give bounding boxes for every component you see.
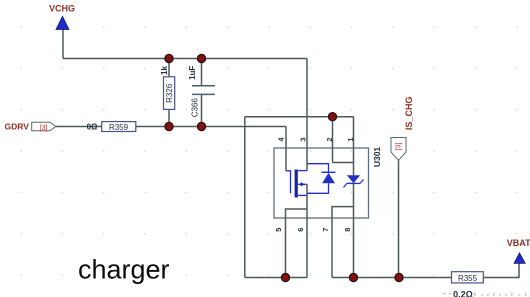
diode D-body cathode bar bbox=[322, 171, 336, 173]
svg-text:1uF: 1uF bbox=[188, 66, 197, 80]
zener triangle bbox=[347, 175, 360, 183]
svg-text:8: 8 bbox=[343, 228, 352, 232]
node line drain to diode bbox=[307, 164, 329, 173]
transistor drain stub bbox=[298, 170, 307, 172]
power symbol VCHG bbox=[56, 16, 69, 29]
svg-text:5: 5 bbox=[274, 228, 283, 232]
wire pin 7 lead bbox=[331, 218, 333, 278]
svg-text:IS_CHG: IS_CHG bbox=[404, 97, 414, 131]
svg-text:2: 2 bbox=[325, 137, 334, 141]
node pin2 tap bbox=[328, 113, 336, 121]
wire bottom rail right segment bbox=[332, 277, 452, 279]
U301 body box bbox=[274, 148, 369, 218]
svg-text:3: 3 bbox=[299, 137, 308, 141]
svg-text:C366: C366 bbox=[190, 98, 199, 118]
wire pin 4 drop bbox=[285, 127, 287, 171]
svg-text:0.2Ω: 0.2Ω bbox=[453, 290, 473, 297]
zener bends bbox=[344, 179, 364, 187]
wire C366 top stub bbox=[201, 59, 203, 86]
svg-text:R359: R359 bbox=[109, 123, 129, 132]
wire zener top lead bbox=[333, 163, 354, 176]
node pins 7-8 bbox=[349, 273, 357, 281]
faint artifact marks bbox=[443, 293, 527, 297]
svg-text:charger: charger bbox=[78, 254, 170, 284]
wire left drop to bottom rail bbox=[244, 117, 246, 278]
wire pin 8 lead bbox=[353, 218, 355, 278]
transistor body stub bbox=[298, 183, 307, 185]
svg-text:VBAT: VBAT bbox=[507, 238, 530, 248]
wire pin 3 drop bbox=[306, 59, 308, 171]
transistor source stub bbox=[298, 194, 307, 196]
node pins 5-6 bbox=[281, 273, 289, 281]
wire R355 to VBAT corner bbox=[483, 263, 519, 278]
wire top rail VCHG bbox=[63, 58, 307, 60]
wire R326 bottom stub bbox=[168, 109, 170, 126]
svg-text:R326: R326 bbox=[165, 83, 174, 103]
svg-text:[3]: [3] bbox=[396, 143, 403, 151]
wire VCHG stem bbox=[62, 30, 64, 59]
wire zener bottom lead bbox=[353, 183, 355, 218]
svg-text:1k: 1k bbox=[160, 66, 169, 75]
wire R326 top stub bbox=[168, 59, 170, 77]
node C366 top bbox=[197, 54, 205, 62]
node C366 bottom bbox=[197, 122, 205, 130]
node IS_CHG tap bbox=[395, 273, 403, 281]
diode D-body triangle bbox=[322, 173, 335, 183]
resistor R326 bbox=[164, 77, 175, 110]
zener cathode bar bbox=[347, 182, 360, 184]
svg-text:VCHG: VCHG bbox=[49, 4, 75, 14]
transistor Q (inside U301): gate jog and plate bbox=[286, 171, 291, 194]
wire pins 5-6 tie inside box bbox=[286, 209, 308, 218]
svg-text:6: 6 bbox=[296, 228, 305, 232]
wire pin 2 drop bbox=[332, 117, 334, 163]
svg-text:7: 7 bbox=[321, 228, 330, 232]
node R326 bottom bbox=[165, 122, 173, 130]
svg-text:1: 1 bbox=[346, 137, 355, 141]
capacitor C366 plates bbox=[192, 86, 215, 95]
wire bottom rail left segment bbox=[245, 277, 307, 279]
wire pins 7-8 tie inside box bbox=[332, 207, 354, 218]
svg-text:GDRV: GDRV bbox=[5, 122, 30, 132]
wire source vertical bbox=[306, 184, 308, 218]
svg-text:0Ω: 0Ω bbox=[87, 123, 98, 132]
wire pin 1 drop bbox=[353, 117, 355, 163]
node R326 top bbox=[165, 54, 173, 62]
resistor R355 bbox=[452, 272, 484, 283]
transistor channel bar bbox=[295, 170, 298, 198]
diode D-body anode lead bbox=[307, 183, 329, 193]
grid dots (decorative) bbox=[21, 27, 518, 276]
resistor R359 bbox=[102, 122, 136, 132]
wire GDRV line bbox=[56, 126, 286, 128]
svg-text:R355: R355 bbox=[458, 274, 478, 283]
wire IS_CHG drop bbox=[398, 160, 400, 277]
wire C366 bottom stub bbox=[201, 94, 203, 126]
svg-text:[3]: [3] bbox=[40, 125, 48, 132]
wire mid horizontal net bbox=[245, 116, 354, 118]
wire pin 5 lead bbox=[285, 218, 287, 278]
svg-text:U301: U301 bbox=[372, 147, 382, 168]
transistor body arrow bbox=[301, 182, 305, 186]
wire pin 6 lead bbox=[306, 218, 308, 278]
power symbol VBAT bbox=[514, 253, 525, 264]
